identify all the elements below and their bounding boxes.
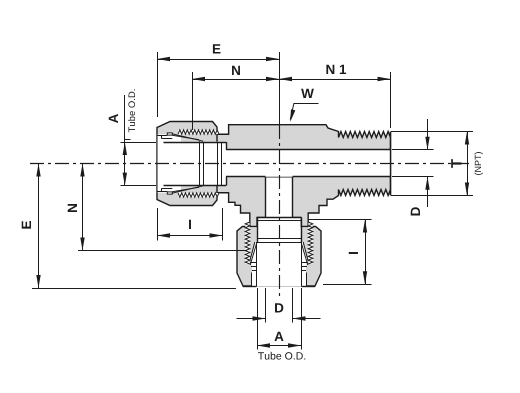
- left port threads top: [178, 130, 219, 134]
- bottom port cavity: [250, 218, 307, 287]
- dimension N1 (top): [279, 65, 391, 128]
- main bore walls: [226, 150, 391, 177]
- left port ferrule clearance bottom: [173, 186, 203, 193]
- dimension A Tube O.D. (bottom): [257, 288, 305, 360]
- dimension N (left vertical): [68, 164, 247, 251]
- bottom port threads left: [245, 222, 250, 264]
- dimension D (right): [392, 119, 434, 215]
- vertical centerline: [279, 52, 281, 299]
- dimension N (top): [192, 66, 279, 130]
- main bore: [226, 150, 391, 177]
- left nut (sectioned): [157, 122, 217, 206]
- left port ferrule chamber: [158, 134, 182, 192]
- dimension E (top): [157, 44, 280, 117]
- horizontal centerline: [30, 163, 471, 165]
- bottom port internal details: [243, 217, 315, 286]
- lower nut (sectioned): [237, 227, 321, 287]
- fitting body (sectioned): [179, 125, 391, 264]
- left port ferrule clearance top: [173, 134, 203, 141]
- dimension E (left vertical): [22, 164, 236, 289]
- dimension A Tube O.D. (left): [109, 89, 156, 185]
- left port tube hole: [158, 142, 227, 186]
- dimension I (left port): [157, 208, 223, 241]
- label W with leader: [290, 89, 318, 122]
- left port internal details: [157, 133, 229, 194]
- bottom port threads right: [308, 222, 313, 264]
- left port threads bottom: [178, 193, 219, 197]
- body end face: [390, 132, 392, 196]
- dimension T NPT (right): [391, 132, 483, 196]
- dimension D (bottom): [237, 288, 321, 323]
- dimension I (bottom port, right): [308, 220, 372, 285]
- branch prongs: [250, 227, 307, 240]
